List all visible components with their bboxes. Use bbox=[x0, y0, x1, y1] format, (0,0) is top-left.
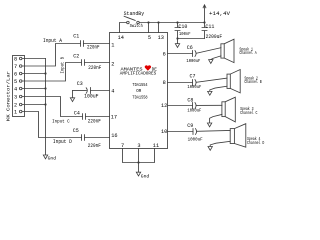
connector pin 7 contact bbox=[19, 65, 22, 68]
svg-text:Channel C: Channel C bbox=[240, 110, 257, 116]
svg-text:1000uF: 1000uF bbox=[186, 58, 200, 64]
svg-text:5: 5 bbox=[148, 35, 151, 41]
node bottom bus junction bbox=[137, 161, 139, 163]
svg-text:220nF: 220nF bbox=[88, 143, 101, 149]
wire pin6 bbox=[22, 73, 46, 75]
wire ground bus bbox=[45, 59, 47, 156]
svg-text:C4: C4 bbox=[74, 110, 80, 116]
wire pin8 to ground bus bbox=[22, 58, 46, 60]
svg-text:TDA1554: TDA1554 bbox=[132, 82, 147, 88]
connector J1 box bbox=[13, 56, 25, 117]
svg-text:4: 4 bbox=[111, 89, 114, 95]
svg-text:Input C: Input C bbox=[52, 119, 70, 125]
svg-text:6: 6 bbox=[163, 52, 166, 58]
wire pin2 bbox=[22, 104, 46, 106]
svg-text:C6: C6 bbox=[187, 45, 193, 51]
node pin4 on bus bbox=[44, 87, 46, 89]
wire C3 to pin4 bbox=[91, 90, 110, 92]
svg-text:C10: C10 bbox=[178, 24, 187, 30]
wire Input A from pin7 bbox=[22, 44, 81, 67]
wire C1 to pin1 bbox=[84, 43, 110, 45]
wire pin12 row bbox=[168, 105, 193, 107]
svg-text:Channel D: Channel D bbox=[247, 140, 264, 146]
svg-text:C1: C1 bbox=[73, 34, 79, 40]
capacitor C8 bbox=[193, 103, 197, 109]
wire pin6 row bbox=[168, 53, 193, 55]
capacitor C9 bbox=[193, 129, 197, 135]
wire pin13 drop bbox=[158, 23, 160, 33]
ground speaker 4 bbox=[210, 141, 230, 146]
svg-text:Channel A: Channel A bbox=[239, 50, 256, 56]
svg-text:12: 12 bbox=[161, 103, 167, 109]
ground Gnd left bbox=[43, 155, 47, 159]
svg-text:220nF: 220nF bbox=[87, 45, 100, 51]
capacitor C4 bbox=[83, 114, 86, 120]
connector pin 5 contact bbox=[19, 80, 22, 83]
svg-text:C3: C3 bbox=[77, 81, 83, 87]
wire C2 to pin2 bbox=[85, 62, 110, 64]
svg-text:Channel B: Channel B bbox=[244, 79, 261, 85]
node rail end junction bbox=[203, 21, 205, 23]
svg-text:17: 17 bbox=[111, 114, 117, 120]
svg-text:TDA1558: TDA1558 bbox=[132, 94, 147, 100]
capacitor C2 bbox=[82, 60, 85, 66]
svg-text:3: 3 bbox=[14, 94, 17, 100]
wire pin10 row bbox=[168, 131, 194, 133]
wire cap bottoms bbox=[178, 38, 205, 40]
node pin13 junction bbox=[157, 21, 159, 23]
speaker LS4 bbox=[230, 129, 234, 144]
svg-text:Switch: Switch bbox=[130, 23, 143, 29]
svg-text:1000uF: 1000uF bbox=[188, 136, 203, 142]
node pin2 on bus bbox=[44, 103, 46, 105]
capacitor C11 bbox=[202, 23, 207, 39]
connector pin 4 contact bbox=[19, 87, 22, 90]
svg-text:5: 5 bbox=[14, 79, 17, 85]
node pin6 on bus bbox=[44, 72, 46, 74]
svg-text:+14,4V: +14,4V bbox=[209, 11, 230, 17]
svg-text:220nF: 220nF bbox=[88, 65, 101, 71]
svg-text:14: 14 bbox=[118, 35, 124, 41]
svg-text:2: 2 bbox=[111, 61, 114, 67]
wire C7 to speaker 2 bbox=[196, 78, 227, 82]
svg-text:C5: C5 bbox=[73, 128, 79, 134]
svg-text:Input B: Input B bbox=[59, 57, 65, 74]
svg-text:3: 3 bbox=[137, 143, 140, 149]
capacitor C7 bbox=[193, 80, 197, 86]
svg-text:C8: C8 bbox=[187, 98, 193, 104]
svg-text:1000uF: 1000uF bbox=[187, 84, 201, 90]
ground speaker 3 bbox=[210, 114, 222, 123]
capacitor C10 bbox=[175, 23, 180, 39]
svg-text:Input A: Input A bbox=[43, 38, 63, 44]
svg-text:OR: OR bbox=[136, 88, 141, 94]
ground speaker 1 bbox=[211, 56, 221, 60]
svg-text:Input D: Input D bbox=[53, 139, 72, 145]
connector pin 6 contact bbox=[19, 72, 22, 75]
switch S1 StandBy bbox=[127, 21, 129, 24]
capacitor C6 bbox=[193, 51, 197, 57]
capacitor C5 bbox=[82, 135, 85, 141]
wire Input D from pin1 bbox=[22, 112, 82, 138]
svg-text:StandBy: StandBy bbox=[124, 11, 145, 17]
speaker LS3 bbox=[222, 102, 225, 117]
wire pin8 row bbox=[168, 82, 193, 84]
power +14,4V bbox=[203, 5, 206, 23]
svg-text:C9: C9 bbox=[187, 123, 193, 129]
wire pin14 riser bbox=[120, 23, 127, 33]
svg-text:8: 8 bbox=[163, 80, 166, 86]
ground below C10 bbox=[177, 39, 179, 44]
connector pin 8 contact bbox=[19, 57, 22, 60]
svg-text:100uF: 100uF bbox=[84, 94, 99, 100]
wire C9 to speaker 4 bbox=[197, 129, 230, 132]
speaker LS2 bbox=[227, 74, 230, 88]
svg-text:6: 6 bbox=[14, 71, 17, 77]
svg-text:C2: C2 bbox=[73, 54, 79, 60]
wire Input C from pin3 bbox=[22, 97, 83, 117]
node C10/C11 bottom junction bbox=[176, 37, 178, 39]
wire C6 to speaker 1 bbox=[196, 48, 221, 54]
svg-text:2: 2 bbox=[14, 102, 17, 108]
svg-text:1: 1 bbox=[111, 42, 114, 48]
svg-text:220nF: 220nF bbox=[88, 119, 101, 125]
svg-text:1000uF: 1000uF bbox=[187, 108, 201, 114]
connector pin 3 contact bbox=[19, 95, 22, 98]
ground for C3 bbox=[72, 91, 74, 98]
svg-text:C11: C11 bbox=[205, 24, 214, 30]
svg-text:13: 13 bbox=[158, 35, 164, 41]
svg-text:2200uF: 2200uF bbox=[206, 34, 223, 40]
op-amp U1 TDA1554 body bbox=[110, 33, 168, 149]
wire supply rail bbox=[139, 22, 204, 24]
speaker LS1 bbox=[221, 44, 224, 58]
node pin5 junction bbox=[147, 21, 149, 23]
svg-text:8: 8 bbox=[14, 56, 17, 62]
svg-text:Gnd: Gnd bbox=[141, 173, 150, 179]
svg-text:C7: C7 bbox=[190, 74, 196, 80]
ground speaker 2 bbox=[210, 86, 227, 91]
svg-text:Gnd: Gnd bbox=[48, 155, 57, 161]
wire bottom pins to ground bus bbox=[123, 149, 155, 163]
svg-text:4: 4 bbox=[14, 86, 17, 92]
wire C5 to pin16 bbox=[85, 137, 110, 139]
svg-text:AMPLIFICADORES: AMPLIFICADORES bbox=[120, 71, 157, 76]
svg-text:16: 16 bbox=[111, 133, 117, 139]
svg-text:10: 10 bbox=[161, 129, 167, 135]
connector pin 2 contact bbox=[19, 103, 22, 106]
capacitor C1 bbox=[81, 41, 84, 47]
wire pin4 bbox=[22, 88, 46, 90]
ground Gnd IC bbox=[138, 163, 140, 173]
node C10 rail junction bbox=[176, 21, 178, 23]
svg-text:100nF: 100nF bbox=[179, 31, 191, 37]
wire pin5 drop bbox=[148, 23, 150, 33]
wire C8 to speaker 3 bbox=[196, 104, 222, 106]
connector pin 1 contact bbox=[19, 110, 22, 113]
svg-text:1: 1 bbox=[14, 109, 17, 115]
svg-text:KK Conector/Lar: KK Conector/Lar bbox=[6, 70, 11, 121]
wire C4 to pin17 bbox=[86, 116, 110, 118]
svg-text:7: 7 bbox=[14, 64, 17, 70]
capacitor C3 bbox=[73, 90, 87, 92]
svg-text:11: 11 bbox=[153, 143, 159, 149]
wire Input B from pin5 bbox=[22, 63, 82, 82]
